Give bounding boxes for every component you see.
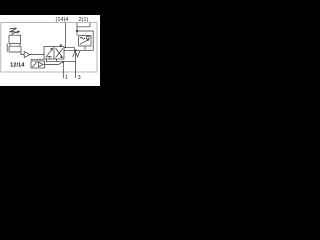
svg-text:1: 1 bbox=[65, 75, 68, 81]
svg-text:3: 3 bbox=[78, 75, 81, 81]
wire valve to right riser bbox=[64, 49, 93, 51]
right position crossed arrows bbox=[56, 49, 63, 58]
pilot actuator triangle bbox=[24, 52, 30, 58]
left position blocked port T bbox=[48, 57, 52, 59]
wire loop top bbox=[77, 23, 90, 27]
silencer box bbox=[9, 46, 21, 52]
solenoid symbol with manual override bbox=[10, 28, 19, 33]
return spring bbox=[73, 51, 80, 57]
port 3 line bbox=[75, 50, 77, 78]
node A junction bbox=[76, 30, 78, 32]
wire triangle to main valve bbox=[30, 54, 44, 56]
node junction port 3 bbox=[75, 49, 77, 51]
bottom manifold wire bbox=[47, 61, 76, 63]
12/14 pilot valve dashes bbox=[31, 59, 44, 61]
wire box to manifold bbox=[84, 46, 86, 50]
white drawing area bbox=[0, 15, 100, 86]
flow control box U2 bbox=[79, 35, 91, 46]
background (transparent margins render black) bbox=[0, 0, 100, 100]
main valve V1 body bbox=[44, 47, 64, 59]
svg-text:(14)4: (14)4 bbox=[56, 17, 69, 23]
left position flow arrow bbox=[46, 49, 53, 58]
valve top port tick bbox=[60, 44, 62, 46]
check valve ball bbox=[86, 36, 89, 39]
svg-text:12/14: 12/14 bbox=[10, 63, 25, 69]
12/14 pilot valve box bbox=[31, 61, 45, 68]
wire to pilot triangle bbox=[21, 52, 24, 55]
pilot tap diagonal wire bbox=[59, 62, 64, 65]
right riser wire bbox=[92, 31, 94, 50]
port 4 line from frame bbox=[64, 23, 75, 50]
wire junction to riser bbox=[77, 30, 93, 32]
svg-text:2(1): 2(1) bbox=[79, 17, 89, 23]
enclosure frame bbox=[1, 23, 97, 72]
node junction port 1 bbox=[62, 61, 64, 63]
port 2 riser wire bbox=[76, 23, 78, 35]
adjustment arrow bbox=[80, 40, 88, 45]
wire solenoid to pilot box bbox=[11, 34, 13, 36]
port 1 line bbox=[62, 62, 64, 78]
throttle squiggle bbox=[80, 37, 85, 39]
valve bottom port ticks bbox=[47, 59, 57, 62]
pilot valve U1 box bbox=[9, 35, 21, 43]
pilot valve output wire bbox=[45, 63, 59, 65]
wire pilot drops bbox=[7, 43, 20, 51]
